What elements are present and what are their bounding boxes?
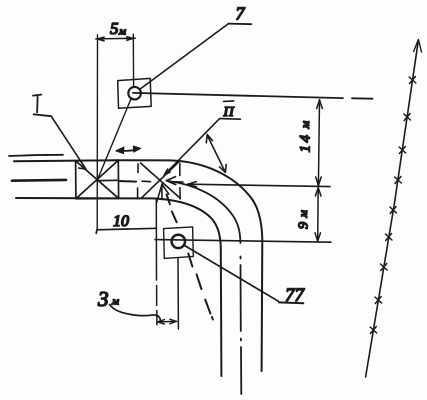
two-way arrow above box2 [119,149,138,151]
svg-text:14: 14 [298,133,314,153]
leader from pole 7 down to box1 center [97,99,131,180]
fence arrow top [414,40,422,53]
dimension 10 line [96,228,156,233]
wire: horizontal line from pole 7 to the right [133,93,373,99]
dimension 9m vertical with arrows [317,187,320,241]
crossed box 2 dashed (vehicle II) [138,161,183,203]
fence line (right side) [366,40,419,377]
leader from pole 77 circle to label 77 [185,246,279,302]
dimension 3m double arrow [157,320,176,323]
dimension 14m vertical with arrows [318,100,319,186]
road center line dash left [12,179,66,182]
svg-text:м: м [111,296,119,308]
dimension 5m: extension lines [96,35,98,230]
svg-text:м: м [118,26,126,38]
trajectory center curve with arrow (dash-dot below) [168,181,240,243]
svg-text:10: 10 [113,213,129,230]
svg-text:м: м [298,210,310,219]
curvy leader from 3m [110,305,161,323]
leader to label 7 [140,24,229,90]
dimension 5m: dim line with arrows [96,37,135,40]
pole 7 box [118,78,152,108]
pole 77 box [164,227,194,259]
horizontal line y241 through pole 77 [155,240,331,243]
leader from P to box2 with arrow [165,119,220,175]
pole 77 circle [172,235,185,248]
svg-text:5: 5 [110,19,119,38]
horizontal line y185 with left arrow [188,184,330,186]
road bottom edge with inner curve to vertical [16,198,221,376]
vertical extension line x156 [155,200,158,325]
fence cross marks [370,77,416,334]
road top edge outer stroke (left, doubled line) [9,155,63,156]
road top edge with curve to vertical (outer curve) [14,160,262,371]
svg-text:7: 7 [236,4,246,24]
road center line dash between boxes [119,180,136,183]
label 1 (I) with bars [33,95,51,117]
vertical line below pole 77 box [177,258,179,329]
svg-text:3: 3 [97,287,109,311]
double arrow across curve [208,136,225,171]
svg-text:П: П [223,105,235,120]
crossed box 1 (vehicle I) [76,160,119,199]
pole 7 circle [128,87,141,100]
svg-text:9: 9 [297,222,312,229]
leader from label 1 to box1 [51,116,86,169]
svg-text:м: м [298,121,312,130]
dashed trajectory from box2 to bottom [167,195,213,320]
